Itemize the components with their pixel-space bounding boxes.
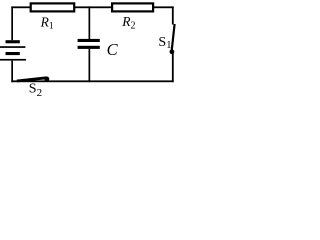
wire top (left node to right node): [11, 6, 173, 8]
svg-text:C: C: [107, 40, 119, 59]
battery cell 1 positive plate (long thin): [0, 46, 25, 48]
wire middle branch upper (top wire to capacitor): [89, 6, 91, 39]
battery cell 1 negative plate (short thick): [6, 40, 20, 43]
battery cell 2 positive plate (long thin): [0, 59, 26, 61]
wire bottom (bottom-left corner to bottom-right corner): [11, 80, 173, 82]
capacitor C top plate: [78, 39, 100, 42]
switch S1 blade: [172, 24, 175, 51]
wire middle branch lower (capacitor to bottom wire): [89, 49, 91, 82]
switch S1 pivot dot: [170, 49, 175, 54]
wire right vertical upper (top-right corner to switch S1): [172, 6, 174, 24]
wire left vertical upper (top-left corner to battery): [11, 6, 13, 40]
resistor R1: [31, 3, 74, 11]
battery cell 2 negative plate (short thick): [6, 52, 20, 55]
switch S2 blade: [17, 78, 47, 81]
resistor R2: [112, 3, 153, 11]
capacitor C bottom plate: [78, 46, 100, 49]
background: [0, 0, 179, 98]
wire left vertical lower (battery to bottom-left corner): [11, 61, 13, 83]
switch S2 pivot dot: [44, 77, 49, 82]
wire right vertical lower (S1 pivot to bottom-right corner): [172, 52, 174, 82]
